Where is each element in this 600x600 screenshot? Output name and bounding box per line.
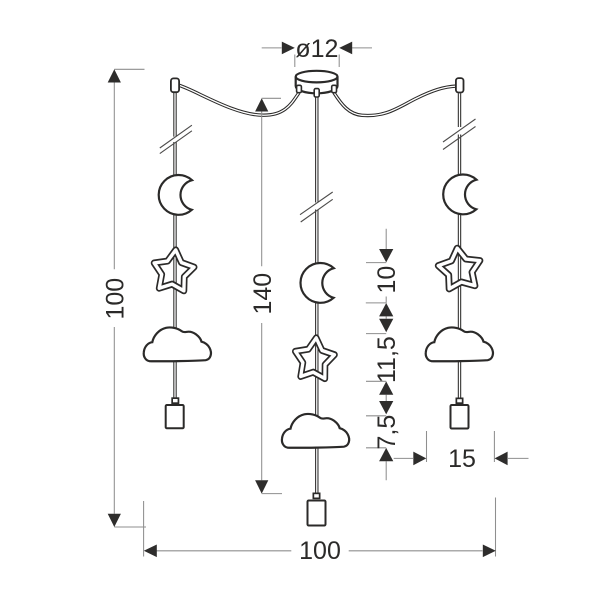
cloud right: [426, 327, 493, 361]
svg-text:100: 100: [299, 537, 341, 565]
moon left: [159, 175, 192, 215]
star center: [293, 336, 336, 379]
wire right column cable: [458, 93, 461, 397]
socket center neck: [313, 493, 319, 498]
moon right: [443, 175, 476, 215]
wire left swag cable: [179, 85, 299, 115]
grip left column top: [171, 78, 179, 92]
wire left column cable: [173, 93, 176, 398]
canopy grip center: [314, 89, 319, 97]
svg-text:7,5: 7,5: [373, 415, 401, 450]
socket left: [166, 405, 184, 428]
break mark right: [443, 119, 476, 150]
canopy grip right: [332, 85, 337, 92]
socket right neck: [456, 398, 462, 403]
grip right column top: [456, 78, 464, 92]
wire right swag cable: [334, 86, 456, 115]
cloud left: [144, 327, 211, 361]
star left: [152, 248, 196, 292]
break mark left: [160, 125, 192, 153]
svg-text:ø12: ø12: [295, 35, 338, 63]
dimension 100 left vertical: [101, 69, 146, 527]
dimension 140 vertical: [249, 98, 282, 493]
svg-text:10: 10: [373, 266, 401, 294]
socket right: [451, 405, 469, 429]
dimension chain 10 / 11,5 / 7,5: [366, 229, 401, 480]
socket left neck: [172, 398, 178, 403]
dimension 15: [394, 431, 529, 473]
canopy grip left: [297, 85, 302, 92]
svg-text:140: 140: [249, 273, 277, 315]
star right: [436, 246, 482, 290]
moon center: [300, 263, 333, 303]
cloud center: [282, 414, 349, 448]
dimension 100 bottom: [144, 498, 496, 566]
svg-text:100: 100: [101, 278, 129, 320]
break mark center: [300, 192, 333, 222]
dimension diameter 12: [262, 35, 372, 67]
svg-text:11,5: 11,5: [373, 336, 401, 383]
wire center column cable: [315, 97, 318, 493]
svg-text:15: 15: [448, 445, 476, 473]
socket center: [308, 501, 326, 526]
canopy: [296, 71, 338, 93]
